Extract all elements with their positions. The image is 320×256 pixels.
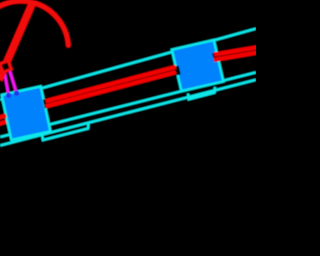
piston P1: [2, 86, 51, 139]
pin dot 2: [14, 91, 19, 96]
connector joint P1 right: [43, 98, 54, 109]
link magenta 2: [9, 69, 16, 93]
wire rail lower B: [0, 80, 256, 146]
rod red stub left of P1: [0, 116, 6, 125]
wire rail top T: [0, 29, 256, 100]
connector joint P2 left: [170, 66, 181, 77]
rod R2 right of P2: [214, 47, 262, 60]
connector joint P1 left: [0, 113, 6, 124]
flywheel hub: [0, 61, 11, 73]
link magenta 1: [4, 71, 8, 96]
wire rail bottom A: [0, 72, 256, 137]
connector joint P2 right: [212, 51, 223, 62]
flywheel rim arc: [0, 1, 68, 45]
pin dot 1: [6, 93, 11, 98]
flywheel spoke: [0, 3, 33, 80]
rod R1 between pistons: [46, 67, 176, 107]
bracket tab under piston P2: [188, 87, 215, 99]
piston P2: [172, 40, 223, 91]
bracket tab under piston P1: [42, 123, 89, 140]
